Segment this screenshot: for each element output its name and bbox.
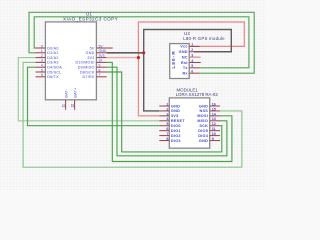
svg-text:3: 3 <box>41 59 43 63</box>
svg-text:SCK: SCK <box>199 124 208 128</box>
wire net 3V3: U2 Vcc loop over the top <box>138 22 244 58</box>
svg-text:BAT+: BAT+ <box>74 88 78 98</box>
MODULE1 right pin names <box>197 104 208 143</box>
U1 left pin names <box>47 46 62 79</box>
svg-text:XIAO_ESP32C3 COPY: XIAO_ESP32C3 COPY <box>63 17 118 22</box>
wire net GND: U1 GND pin horizontal <box>107 52 144 54</box>
U2 pin numbers 1-6 <box>191 43 193 74</box>
svg-text:Tx: Tx <box>183 66 189 70</box>
svg-text:8: 8 <box>166 137 168 141</box>
U2 right pin stubs 1-6 <box>189 46 199 73</box>
svg-text:7: 7 <box>99 73 101 77</box>
MODULE1 right pin numbers 16-9 <box>212 102 217 141</box>
wire D9/MISO to LORA MISO <box>107 67 227 156</box>
svg-text:GND: GND <box>199 104 208 108</box>
U1 bottom pin stubs BAT- BAT+ <box>66 100 75 110</box>
svg-text:2: 2 <box>166 107 168 111</box>
wire D8/SCK to LORA SCK <box>107 72 222 152</box>
MODULE1 left pin names <box>171 104 185 143</box>
junction 3V3 net <box>137 56 140 59</box>
svg-text:12: 12 <box>70 104 74 108</box>
svg-text:GND: GND <box>199 139 208 143</box>
svg-text:3V3: 3V3 <box>99 54 105 58</box>
svg-text:8: 8 <box>99 68 101 72</box>
svg-text:U2: U2 <box>184 31 190 36</box>
svg-text:9: 9 <box>212 137 214 141</box>
U2 pin names <box>179 45 189 76</box>
svg-text:1: 1 <box>166 102 168 106</box>
MODULE1 left pin numbers 1-8 <box>166 102 169 141</box>
wire D3/A3 to LORA NSS (light green loop around bottom) <box>23 62 242 167</box>
svg-text:3: 3 <box>166 112 168 116</box>
U1 right pin stubs <box>96 48 106 77</box>
svg-text:GND: GND <box>99 49 107 53</box>
svg-text:7: 7 <box>166 132 168 136</box>
U2 pin3 NC long pale stub <box>189 56 201 58</box>
svg-text:Rst: Rst <box>181 61 188 65</box>
U1 bottom pin numbers <box>61 104 74 108</box>
svg-text:5: 5 <box>41 68 43 72</box>
wire D4/SDA to LORA DIO0 <box>28 67 160 126</box>
svg-text:GND: GND <box>179 50 188 54</box>
U2 pin4 Rst stub extension <box>200 61 201 63</box>
svg-text:DIO4: DIO4 <box>198 134 209 138</box>
svg-text:4: 4 <box>41 64 43 68</box>
svg-text:2: 2 <box>191 48 193 52</box>
svg-text:D1/A1: D1/A1 <box>47 51 58 55</box>
svg-text:16: 16 <box>212 102 216 106</box>
svg-text:D0/A0: D0/A0 <box>47 46 58 50</box>
wire D2/A2 to LORA RESET (pale green) <box>18 58 159 121</box>
svg-text:GND: GND <box>171 109 180 113</box>
svg-text:6: 6 <box>191 70 193 74</box>
svg-text:DIO1: DIO1 <box>171 129 181 133</box>
svg-text:D7/RX: D7/RX <box>83 75 95 79</box>
wire net 3V3: vertical from junction down to LORA pin3 <box>138 58 159 116</box>
svg-text:Vcc: Vcc <box>180 45 188 49</box>
svg-text:10: 10 <box>99 59 103 63</box>
svg-text:MOSI: MOSI <box>197 114 208 118</box>
svg-text:5: 5 <box>191 64 193 68</box>
svg-text:D10/MOSI: D10/MOSI <box>75 61 94 65</box>
svg-text:D2/A2: D2/A2 <box>47 56 58 60</box>
svg-text:D9/MISO: D9/MISO <box>78 66 95 70</box>
svg-text:D6/TX: D6/TX <box>47 75 59 79</box>
svg-text:3V3: 3V3 <box>171 114 179 118</box>
svg-text:12: 12 <box>212 122 216 126</box>
svg-text:1: 1 <box>191 43 193 47</box>
svg-text:10: 10 <box>212 132 216 136</box>
wire net GND: U2 GND loop down to LORA pin2 <box>144 30 232 111</box>
svg-text:5V: 5V <box>90 46 95 50</box>
junction GND net <box>142 51 145 54</box>
svg-text:GND: GND <box>171 104 180 108</box>
svg-text:LORA SX1278 RA-02: LORA SX1278 RA-02 <box>176 92 219 97</box>
svg-text:NC: NC <box>182 55 188 59</box>
svg-text:GND: GND <box>86 51 95 55</box>
svg-text:DIO0: DIO0 <box>171 124 181 128</box>
svg-text:L80-R: L80-R <box>171 50 177 68</box>
U1 bottom pin names BAT- BAT+ <box>65 88 78 98</box>
IC U2 L80-R GPS body <box>170 44 190 79</box>
svg-text:2: 2 <box>41 54 43 58</box>
svg-text:3V3: 3V3 <box>87 56 94 60</box>
svg-text:3: 3 <box>191 53 193 57</box>
svg-text:D8/SCK: D8/SCK <box>80 70 95 74</box>
svg-text:11: 11 <box>61 104 65 108</box>
svg-text:5: 5 <box>166 122 168 126</box>
svg-text:Rx: Rx <box>182 72 188 76</box>
MODULE1 left pin stubs 1-8 <box>159 106 169 141</box>
wire D1/A1 to GPS Rx (outer green loop) <box>29 12 254 73</box>
svg-text:BAT-: BAT- <box>65 88 69 97</box>
MODULE1 right pin stubs 16-9 <box>210 106 220 141</box>
svg-text:DIO5: DIO5 <box>198 129 208 133</box>
svg-text:6: 6 <box>41 73 43 77</box>
svg-text:L80-R GPS module: L80-R GPS module <box>183 36 225 41</box>
svg-text:1: 1 <box>41 49 43 53</box>
svg-text:15: 15 <box>212 107 216 111</box>
svg-text:9: 9 <box>99 64 101 68</box>
svg-text:6: 6 <box>166 127 168 131</box>
U1 right pin numbers 10 9 8 7 <box>99 59 103 77</box>
svg-text:D4/SDA: D4/SDA <box>47 66 62 70</box>
svg-text:13: 13 <box>212 117 216 121</box>
wire net 3V3: U1 3V3 pin horizontal <box>107 57 139 59</box>
svg-text:NSS: NSS <box>200 109 209 113</box>
svg-text:DIO2: DIO2 <box>171 134 181 138</box>
svg-text:D3/A3: D3/A3 <box>47 61 58 65</box>
svg-text:RESET: RESET <box>171 119 185 123</box>
U1 right power net labels 5V GND 3V3 <box>99 44 107 58</box>
wire D0/A0 to GPS Tx (inner green loop) <box>34 17 249 68</box>
svg-text:0: 0 <box>41 44 43 48</box>
svg-text:DIO3: DIO3 <box>171 139 181 143</box>
svg-text:MISO: MISO <box>197 119 208 123</box>
svg-text:11: 11 <box>212 127 216 131</box>
MODULE1 LORA SX1278 RA-02 body <box>169 98 209 148</box>
U1 right pin names <box>75 46 94 79</box>
wire net 5V stub at U1 <box>107 47 113 49</box>
svg-text:D5/SCL: D5/SCL <box>47 70 61 74</box>
svg-text:4: 4 <box>191 59 193 63</box>
U1 left pin numbers 0-6 <box>41 44 43 77</box>
svg-text:5V: 5V <box>99 44 104 48</box>
wire D10/MOSI to LORA MOSI <box>107 62 232 161</box>
U1 left pin stubs 0-6 <box>36 48 46 77</box>
IC U1 XIAO_ESP32C3 body <box>45 22 96 100</box>
